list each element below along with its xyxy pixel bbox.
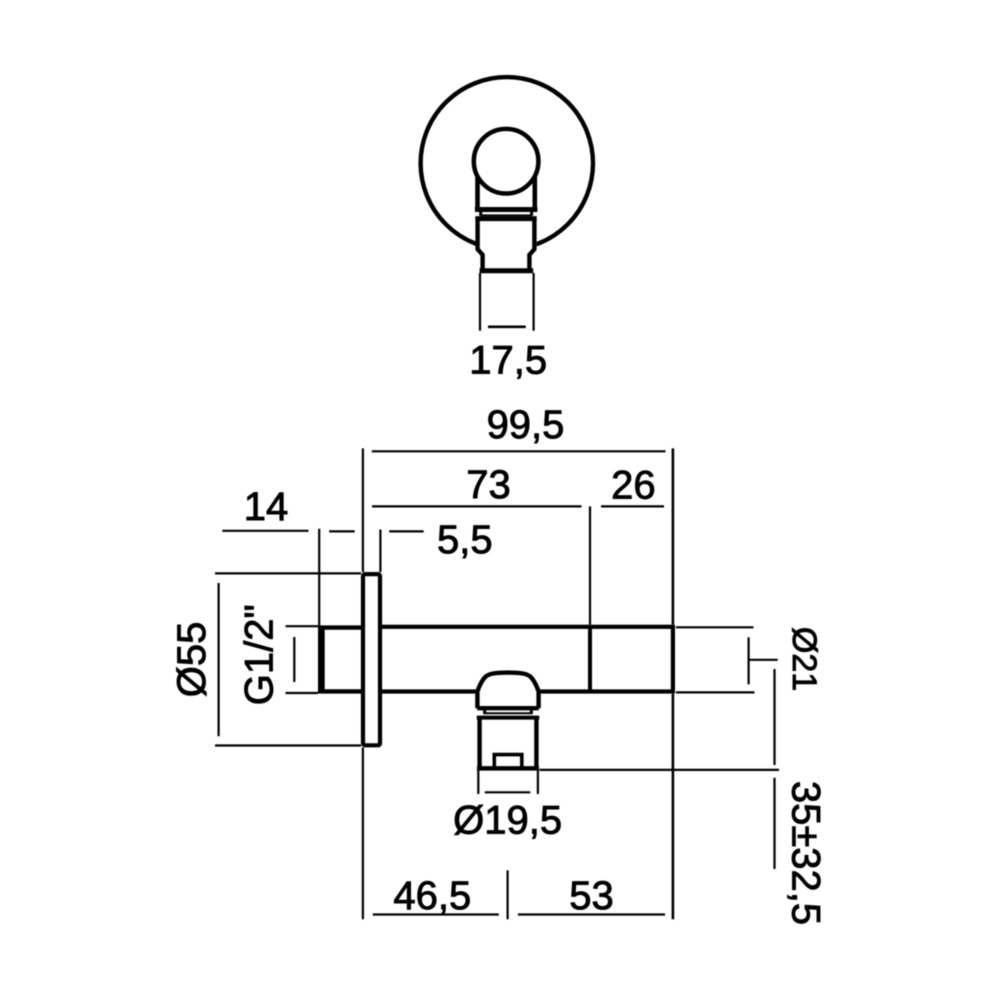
svg-text:5,5: 5,5 [437, 518, 493, 562]
svg-text:26: 26 [611, 464, 656, 508]
svg-text:G1/2": G1/2" [237, 604, 281, 705]
svg-text:17,5: 17,5 [469, 339, 547, 383]
svg-text:35±32,5: 35±32,5 [784, 781, 828, 925]
svg-text:Ø55: Ø55 [170, 622, 214, 698]
svg-text:99,5: 99,5 [487, 403, 565, 447]
svg-text:73: 73 [466, 463, 511, 507]
svg-text:Ø19,5: Ø19,5 [453, 799, 562, 843]
svg-text:Ø21: Ø21 [785, 627, 823, 691]
svg-text:53: 53 [569, 874, 614, 918]
svg-text:46,5: 46,5 [393, 874, 471, 918]
svg-text:14: 14 [244, 485, 289, 529]
